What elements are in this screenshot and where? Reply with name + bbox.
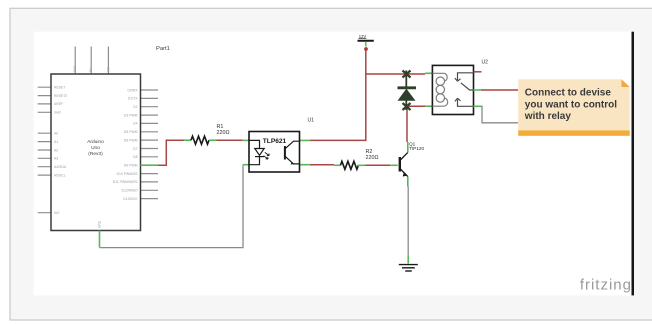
svg-text:D10 PWM/SS: D10 PWM/SS bbox=[117, 172, 139, 176]
svg-text:(Rev3): (Rev3) bbox=[88, 151, 103, 157]
svg-text:D7: D7 bbox=[133, 147, 137, 151]
svg-text:D4: D4 bbox=[133, 122, 137, 126]
svg-text:D1/TX: D1/TX bbox=[128, 97, 138, 101]
svg-text:GND: GND bbox=[98, 220, 102, 228]
svg-text:U1: U1 bbox=[308, 117, 315, 123]
svg-text:A3: A3 bbox=[54, 157, 58, 161]
svg-text:220Ω: 220Ω bbox=[217, 130, 230, 136]
svg-text:N/C: N/C bbox=[54, 211, 60, 215]
svg-text:VIN: VIN bbox=[106, 66, 110, 72]
svg-text:A4/SDA: A4/SDA bbox=[54, 165, 67, 169]
svg-text:RESET2: RESET2 bbox=[54, 94, 67, 98]
svg-text:RESET: RESET bbox=[54, 86, 65, 90]
svg-text:D11 PWM/MOSI: D11 PWM/MOSI bbox=[113, 180, 138, 184]
svg-text:D8: D8 bbox=[133, 155, 137, 159]
svg-text:12V: 12V bbox=[359, 34, 367, 39]
svg-text:D5 PWM: D5 PWM bbox=[124, 130, 138, 134]
svg-text:220Ω: 220Ω bbox=[366, 155, 379, 161]
svg-text:A2: A2 bbox=[54, 148, 58, 152]
svg-text:U2: U2 bbox=[482, 59, 489, 65]
svg-text:with relay: with relay bbox=[524, 111, 572, 122]
svg-text:A0: A0 bbox=[54, 132, 58, 136]
svg-text:Uno: Uno bbox=[91, 145, 100, 151]
svg-text:you want to control: you want to control bbox=[525, 99, 617, 110]
svg-text:fritzing: fritzing bbox=[580, 277, 632, 294]
svg-text:AREF: AREF bbox=[54, 102, 63, 106]
svg-text:Connect to devise: Connect to devise bbox=[525, 88, 612, 99]
svg-text:D0/RX: D0/RX bbox=[128, 88, 139, 92]
svg-text:D3 PWM: D3 PWM bbox=[124, 113, 138, 117]
svg-text:Arduino: Arduino bbox=[87, 139, 104, 145]
svg-text:ioref: ioref bbox=[54, 111, 61, 115]
svg-text:D6 PWM: D6 PWM bbox=[124, 138, 138, 142]
svg-text:TIP120: TIP120 bbox=[409, 146, 425, 151]
svg-text:TLP621: TLP621 bbox=[263, 138, 287, 145]
svg-text:D12/MISO: D12/MISO bbox=[122, 189, 138, 193]
svg-text:D2: D2 bbox=[133, 105, 137, 109]
svg-text:D13/SCK: D13/SCK bbox=[123, 197, 138, 201]
svg-text:Part1: Part1 bbox=[156, 46, 170, 52]
svg-text:D9 PWM: D9 PWM bbox=[124, 164, 138, 168]
svg-text:3V3: 3V3 bbox=[73, 66, 77, 72]
svg-text:A5/SCL: A5/SCL bbox=[54, 173, 66, 177]
svg-text:A1: A1 bbox=[54, 140, 58, 144]
